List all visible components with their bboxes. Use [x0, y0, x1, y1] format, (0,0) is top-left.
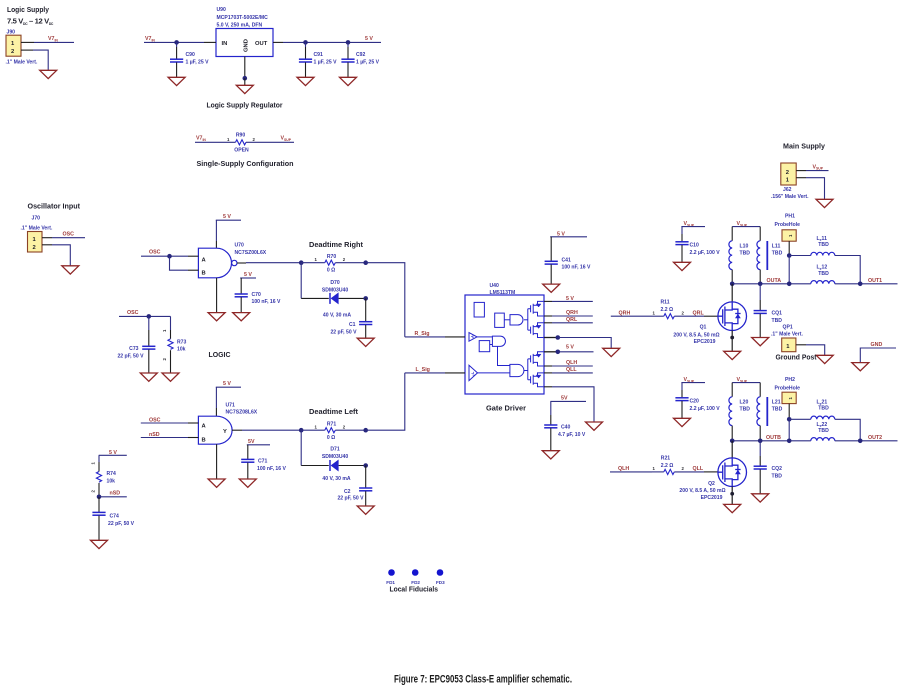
- transistor Q1: [673, 302, 746, 345]
- node R71 left: [299, 428, 304, 433]
- svg-text:10k: 10k: [177, 347, 186, 353]
- svg-text:L10: L10: [740, 244, 749, 250]
- svg-text:U90: U90: [217, 7, 227, 13]
- capacitor C74: [92, 497, 134, 540]
- svg-text:QP1: QP1: [783, 325, 793, 331]
- svg-text:V7IN: V7IN: [48, 36, 58, 42]
- wire J90 pin2 to ground: [21, 50, 48, 70]
- svg-text:R11: R11: [661, 300, 670, 306]
- node OUTA L11 CQ1: [758, 282, 763, 287]
- svg-text:nSD: nSD: [110, 491, 121, 497]
- svg-text:EPC2019: EPC2019: [694, 339, 716, 345]
- node OUTA PH1: [787, 282, 792, 287]
- ground Q2: [724, 504, 741, 512]
- wire OUTA row: [732, 278, 811, 284]
- wire OSC to U70 A: [141, 250, 198, 257]
- inductor L10: [729, 241, 750, 284]
- node PH2 Le21: [787, 417, 792, 422]
- svg-text:1 µF, 25 V: 1 µF, 25 V: [314, 60, 338, 66]
- svg-text:U71: U71: [226, 403, 236, 409]
- svg-text:VSUP: VSUP: [813, 164, 824, 170]
- node U70 input split: [167, 254, 172, 259]
- node OUTB Q2: [730, 439, 735, 444]
- capacitor C70: [235, 292, 281, 312]
- wire J70 pin1 OSC: [42, 232, 85, 238]
- svg-text:GND: GND: [871, 342, 883, 348]
- svg-text:V7IN: V7IN: [145, 36, 155, 42]
- power port VSUP C10: [681, 221, 705, 241]
- svg-text:2: 2: [11, 49, 14, 55]
- ground C2: [357, 506, 374, 514]
- ground C90: [168, 77, 185, 85]
- wire Q1 source: [730, 330, 734, 351]
- node OUT2 Le21: [858, 439, 863, 444]
- power port 5V R74: [99, 450, 127, 462]
- svg-text:22 pF, 50 V: 22 pF, 50 V: [337, 496, 364, 502]
- svg-text:L11: L11: [772, 244, 781, 250]
- svg-text:TBD: TBD: [818, 242, 829, 248]
- svg-text:U70: U70: [235, 243, 245, 249]
- svg-text:QLL: QLL: [566, 367, 577, 373]
- node R71 right: [363, 428, 368, 433]
- power port 5V U70: [216, 214, 241, 248]
- svg-text:1: 1: [653, 466, 656, 471]
- svg-text:5 V: 5 V: [566, 296, 574, 302]
- svg-text:.1" Male Vert.: .1" Male Vert.: [21, 226, 53, 232]
- node nSD tap: [97, 495, 102, 500]
- ground J90: [40, 70, 57, 78]
- svg-text:R73: R73: [177, 340, 187, 346]
- resistor R74: [91, 462, 117, 497]
- connector QP1: [771, 325, 803, 352]
- and gate U71: [198, 403, 257, 445]
- svg-text:2: 2: [343, 425, 346, 430]
- svg-text:.156" Male Vert.: .156" Male Vert.: [771, 194, 809, 200]
- wire PH1 to OUTA: [788, 256, 790, 284]
- wire Q1 drain: [731, 284, 733, 302]
- node D70 C1: [363, 296, 368, 301]
- svg-text:PH2: PH2: [785, 377, 795, 383]
- capacitor C73: [117, 316, 155, 372]
- svg-text:0 Ω: 0 Ω: [327, 435, 335, 441]
- connector J62: [771, 163, 809, 200]
- svg-text:Deadtime Right: Deadtime Right: [309, 240, 363, 249]
- svg-text:Y: Y: [223, 429, 227, 435]
- svg-text:1 µF, 25 V: 1 µF, 25 V: [356, 60, 380, 66]
- svg-text:1: 1: [227, 137, 230, 142]
- wire U71 ground lead: [216, 444, 218, 479]
- svg-text:1: 1: [91, 462, 96, 465]
- svg-text:10k: 10k: [107, 479, 116, 485]
- wire nSD stub: [99, 491, 127, 497]
- svg-text:1: 1: [315, 425, 318, 430]
- svg-text:J70: J70: [32, 216, 41, 222]
- svg-text:Logic Supply Regulator: Logic Supply Regulator: [207, 101, 283, 110]
- diode D71: [301, 430, 366, 482]
- svg-text:R70: R70: [327, 254, 337, 260]
- ground CQ1: [752, 338, 769, 346]
- svg-text:QLL: QLL: [693, 466, 704, 472]
- ground C40: [542, 451, 559, 459]
- ground C10: [674, 262, 691, 270]
- power port VSUP L20 L21: [732, 377, 760, 397]
- ground C71: [239, 479, 256, 487]
- wire U70 ground lead: [216, 278, 218, 313]
- capacitor CQ1: [754, 284, 783, 337]
- wire OUT2: [835, 435, 898, 441]
- wire U40 HOL QRL: [544, 317, 593, 323]
- svg-text:R74: R74: [107, 471, 117, 477]
- probe hole PH1: [775, 214, 801, 256]
- resistor R73: [162, 316, 187, 372]
- svg-text:1 µF, 25 V: 1 µF, 25 V: [186, 60, 210, 66]
- svg-text:CQ1: CQ1: [772, 311, 783, 317]
- power port 5V C71: [247, 439, 270, 459]
- wire GND net: [860, 342, 896, 362]
- svg-text:Gate Driver: Gate Driver: [486, 404, 526, 413]
- svg-text:Deadtime Left: Deadtime Left: [309, 407, 358, 416]
- svg-text:C92: C92: [356, 52, 366, 58]
- svg-text:5 V: 5 V: [566, 345, 574, 351]
- ground U71: [208, 479, 225, 487]
- capacitor C92: [341, 42, 379, 77]
- inductor L11: [757, 241, 783, 284]
- svg-text:2.2 µF, 100 V: 2.2 µF, 100 V: [690, 406, 721, 412]
- svg-text:100 nF, 16 V: 100 nF, 16 V: [252, 299, 281, 305]
- svg-text:QLH: QLH: [566, 360, 577, 366]
- svg-text:100 nF, 16 V: 100 nF, 16 V: [257, 466, 286, 472]
- wire R_Sig: [405, 331, 465, 337]
- node D71 C2: [363, 463, 368, 468]
- resistor R71: [301, 422, 366, 442]
- svg-text:TBD: TBD: [818, 428, 829, 434]
- wire U71 output: [232, 429, 301, 431]
- svg-text:OPEN: OPEN: [234, 148, 249, 154]
- svg-text:PH1: PH1: [785, 214, 795, 220]
- inductor L21: [757, 397, 783, 441]
- svg-text:C90: C90: [186, 52, 196, 58]
- svg-text:A: A: [202, 257, 207, 263]
- svg-text:C73: C73: [129, 346, 139, 352]
- svg-text:C10: C10: [690, 243, 700, 249]
- wire U40 LOL QLL: [544, 367, 593, 373]
- node OUTB PH2: [787, 439, 792, 444]
- svg-text:4.7 µF, 10 V: 4.7 µF, 10 V: [558, 432, 586, 438]
- wire QLL to Q2 gate: [674, 466, 718, 472]
- svg-text:5 V: 5 V: [244, 272, 252, 278]
- wire R71 to L_Sig corner: [366, 373, 405, 430]
- wire U40 HB 5V: [544, 296, 593, 302]
- svg-text:A: A: [202, 424, 207, 430]
- U40 internal logic: [469, 302, 528, 380]
- node R70 left: [299, 260, 304, 265]
- svg-text:D71: D71: [330, 447, 340, 453]
- svg-text:OUTB: OUTB: [766, 435, 781, 441]
- wire single-supply net VSUP: [246, 136, 294, 143]
- ground U70: [208, 313, 225, 321]
- capacitor C71: [241, 459, 286, 479]
- wire J62 pin2 VSUP: [796, 164, 828, 170]
- wire OUTB row: [732, 435, 811, 441]
- svg-text:0 Ω: 0 Ω: [327, 268, 335, 274]
- svg-text:ProbeHole: ProbeHole: [775, 222, 801, 228]
- wire QP1 to ground: [796, 345, 825, 355]
- svg-text:C70: C70: [252, 292, 262, 298]
- svg-text:OSC: OSC: [127, 310, 139, 316]
- power port 5V U71: [216, 381, 241, 416]
- svg-text:.1" Male Vert.: .1" Male Vert.: [6, 60, 38, 66]
- svg-text:2: 2: [33, 245, 36, 251]
- svg-text:MCP1703T-5002E/MC: MCP1703T-5002E/MC: [217, 15, 269, 21]
- svg-text:2: 2: [91, 490, 96, 493]
- ground C20: [674, 418, 691, 426]
- wire J90 pin1 V7IN: [21, 36, 74, 42]
- ground R73: [162, 373, 179, 381]
- svg-text:Q2: Q2: [708, 481, 715, 487]
- svg-text:TBD: TBD: [818, 406, 829, 412]
- node OUTA Q1: [730, 282, 735, 287]
- svg-text:OUT: OUT: [255, 41, 268, 47]
- svg-text:L20: L20: [740, 400, 749, 406]
- ground J70: [62, 266, 79, 274]
- capacitor C40: [544, 425, 586, 451]
- svg-text:200 V, 8.5 A, 50 mΩ: 200 V, 8.5 A, 50 mΩ: [679, 488, 725, 494]
- wire U40 HS to ground: [544, 335, 611, 348]
- wire QLH R21: [610, 466, 652, 472]
- capacitor C41: [545, 257, 591, 284]
- wire J62 pin1 to ground: [796, 178, 824, 199]
- wire single-supply net V7IN: [195, 136, 236, 143]
- svg-text:5V: 5V: [248, 439, 255, 445]
- svg-text:Oscillator Input: Oscillator Input: [28, 202, 81, 211]
- transistor Q2: [679, 458, 746, 501]
- svg-text:IN: IN: [222, 41, 228, 47]
- svg-text:R_Sig: R_Sig: [415, 331, 430, 337]
- inductor Le11: [789, 236, 860, 284]
- wire U90 OUT 5V: [273, 36, 381, 42]
- svg-text:QLH: QLH: [618, 466, 629, 472]
- resistor R90: [227, 133, 256, 154]
- svg-text:OUT2: OUT2: [868, 435, 882, 441]
- node OUTB L21 CQ2: [758, 439, 763, 444]
- svg-text:QRH: QRH: [619, 310, 631, 316]
- svg-text:22 pF, 50 V: 22 pF, 50 V: [330, 330, 357, 336]
- wire QRH R11: [611, 310, 652, 316]
- wire U40 LOH QLH: [544, 360, 593, 366]
- svg-text:SDM03U40: SDM03U40: [322, 287, 348, 293]
- svg-text:TBD: TBD: [772, 473, 783, 479]
- svg-text:NC7SZ00L6X: NC7SZ00L6X: [235, 250, 267, 256]
- ground C73: [140, 373, 157, 381]
- node C90 tap: [174, 40, 179, 45]
- svg-text:2: 2: [786, 170, 789, 176]
- svg-text:1: 1: [315, 257, 318, 262]
- svg-text:J90: J90: [7, 30, 16, 36]
- ground J62: [816, 199, 833, 207]
- svg-text:C91: C91: [314, 52, 324, 58]
- svg-text:R71: R71: [327, 422, 337, 428]
- fiducial FD2: [411, 569, 420, 585]
- ground U40 HS: [603, 348, 620, 356]
- fiducial FD1: [386, 569, 395, 585]
- svg-text:C2: C2: [344, 489, 351, 495]
- capacitor CQ2: [754, 441, 783, 494]
- svg-text:TBD: TBD: [818, 271, 829, 277]
- svg-text:2.2 Ω: 2.2 Ω: [661, 463, 674, 469]
- svg-text:VSUP: VSUP: [281, 136, 292, 142]
- power port VSUP C20: [681, 377, 705, 397]
- svg-text:Local Fiducials: Local Fiducials: [390, 585, 439, 594]
- svg-text:CQ2: CQ2: [772, 466, 783, 472]
- ground C74: [91, 540, 108, 548]
- svg-text:40 V, 30 mA: 40 V, 30 mA: [323, 313, 351, 319]
- svg-text:22 pF, 50 V: 22 pF, 50 V: [108, 521, 135, 527]
- svg-text:TBD: TBD: [772, 250, 783, 256]
- ground C41: [543, 284, 560, 292]
- power port 5V C40: [550, 395, 586, 424]
- regulator U90: [216, 7, 273, 57]
- wire U40 VSS to ground: [544, 387, 594, 422]
- svg-text:GND: GND: [244, 39, 250, 52]
- svg-text:QRL: QRL: [566, 317, 578, 323]
- connector J70: [21, 216, 53, 253]
- svg-text:Main Supply: Main Supply: [783, 142, 826, 151]
- svg-text:B: B: [202, 438, 206, 444]
- svg-text:1: 1: [162, 329, 167, 332]
- wire L_Sig: [405, 367, 465, 373]
- ground Q1: [724, 351, 741, 359]
- svg-text:2: 2: [682, 311, 685, 316]
- svg-text:TBD: TBD: [772, 318, 783, 324]
- ground C1: [357, 338, 374, 346]
- svg-text:1: 1: [653, 311, 656, 316]
- svg-text:Figure 7: EPC9053 Class-E ampl: Figure 7: EPC9053 Class-E amplifier sche…: [394, 674, 572, 686]
- wire R70 to R_Sig corner: [366, 263, 405, 337]
- power port VSUP L10 L11: [732, 221, 760, 241]
- probe hole PH2: [775, 377, 801, 419]
- node R70 right: [363, 260, 368, 265]
- svg-text:B: B: [202, 271, 206, 277]
- wire U70 B input: [170, 256, 199, 270]
- wire Q2 drain: [731, 441, 733, 458]
- inductor Le12: [811, 265, 835, 284]
- capacitor C10: [675, 242, 720, 262]
- svg-text:L21: L21: [772, 400, 781, 406]
- wire OUT1: [835, 278, 898, 284]
- svg-text:Single-Supply Configuration: Single-Supply Configuration: [197, 159, 294, 168]
- svg-text:C20: C20: [690, 399, 700, 405]
- svg-text:OUTA: OUTA: [767, 278, 782, 284]
- ground CQ2: [752, 494, 769, 502]
- svg-text:LOGIC: LOGIC: [209, 350, 231, 359]
- inductor Le21: [789, 400, 860, 441]
- svg-text:2: 2: [162, 358, 167, 361]
- wire OSC to U71 A: [141, 418, 199, 424]
- inductor L20: [729, 397, 750, 441]
- wire U40 VDD 5V: [544, 345, 594, 354]
- svg-text:D70: D70: [330, 280, 340, 286]
- gate driver U40: [465, 283, 544, 394]
- capacitor C2: [337, 466, 372, 506]
- ground QP1: [816, 355, 833, 363]
- svg-text:2.2 Ω: 2.2 Ω: [661, 307, 674, 313]
- ground C91: [297, 77, 314, 85]
- svg-text:C71: C71: [258, 459, 268, 465]
- wire nSD to U71 B: [141, 432, 199, 438]
- wire J70 pin2 to ground: [42, 245, 70, 266]
- svg-text:SDM03U40: SDM03U40: [322, 454, 348, 460]
- svg-text:TBD: TBD: [740, 250, 751, 256]
- power port 5V C70: [240, 272, 256, 294]
- resistor R21: [652, 455, 685, 474]
- power port 5V C41: [550, 231, 587, 261]
- svg-text:L_Sig: L_Sig: [416, 367, 430, 373]
- svg-text:.1" Male Vert.: .1" Male Vert.: [771, 332, 803, 338]
- ground U90: [236, 85, 253, 93]
- node PH1 Le11: [787, 253, 792, 258]
- node C92 tap: [346, 40, 351, 45]
- ground GND net: [852, 363, 869, 371]
- capacitor C91: [299, 42, 337, 77]
- svg-text:OUT1: OUT1: [868, 278, 882, 284]
- svg-text:C74: C74: [110, 514, 120, 520]
- svg-text:EPC2019: EPC2019: [701, 495, 723, 501]
- resistor R70: [301, 254, 366, 274]
- svg-text:7.5 VDC – 12 VDC: 7.5 VDC – 12 VDC: [7, 17, 54, 27]
- svg-text:J62: J62: [783, 187, 792, 193]
- svg-text:C1: C1: [349, 322, 356, 328]
- svg-text:40 V, 30 mA: 40 V, 30 mA: [322, 476, 350, 482]
- svg-text:NC7SZ08L6X: NC7SZ08L6X: [226, 410, 258, 416]
- capacitor C1: [330, 298, 372, 338]
- wire PH2 to OUTB: [788, 419, 790, 441]
- svg-text:5 V: 5 V: [365, 36, 373, 42]
- node C73 tap: [147, 314, 152, 319]
- wire U40 HOH QRH: [544, 310, 593, 316]
- svg-text:C40: C40: [561, 425, 571, 431]
- wire U90 GND: [243, 57, 248, 86]
- svg-text:Q1: Q1: [700, 324, 707, 330]
- wire Q2 source: [730, 486, 734, 504]
- svg-text:2: 2: [253, 137, 256, 142]
- capacitor C90: [170, 42, 209, 77]
- svg-text:5 V: 5 V: [223, 381, 231, 387]
- U40 internal fets: [528, 301, 544, 386]
- svg-text:TBD: TBD: [740, 406, 751, 412]
- resistor R11: [652, 300, 685, 319]
- svg-text:OSC: OSC: [63, 232, 75, 238]
- svg-text:2: 2: [343, 257, 346, 262]
- svg-text:C41: C41: [562, 257, 572, 263]
- svg-text:V7IN: V7IN: [196, 136, 206, 142]
- svg-text:OSC: OSC: [149, 250, 161, 256]
- capacitor C20: [675, 398, 720, 418]
- nand gate U70: [198, 243, 266, 278]
- svg-text:2: 2: [682, 466, 685, 471]
- svg-text:Logic Supply: Logic Supply: [7, 5, 50, 14]
- svg-text:200 V, 8.5 A, 50 mΩ: 200 V, 8.5 A, 50 mΩ: [673, 332, 719, 338]
- svg-text:Ground Post: Ground Post: [776, 353, 817, 362]
- wire V7IN to U90: [144, 36, 216, 42]
- connector J90: [6, 30, 38, 66]
- svg-text:QRL: QRL: [693, 310, 705, 316]
- node OUT1 Le11: [858, 282, 863, 287]
- svg-text:5V: 5V: [561, 395, 568, 401]
- inductor Le22: [811, 422, 835, 441]
- node C91 tap: [303, 40, 308, 45]
- diode D70: [301, 263, 366, 319]
- svg-text:100 nF, 16 V: 100 nF, 16 V: [562, 264, 591, 270]
